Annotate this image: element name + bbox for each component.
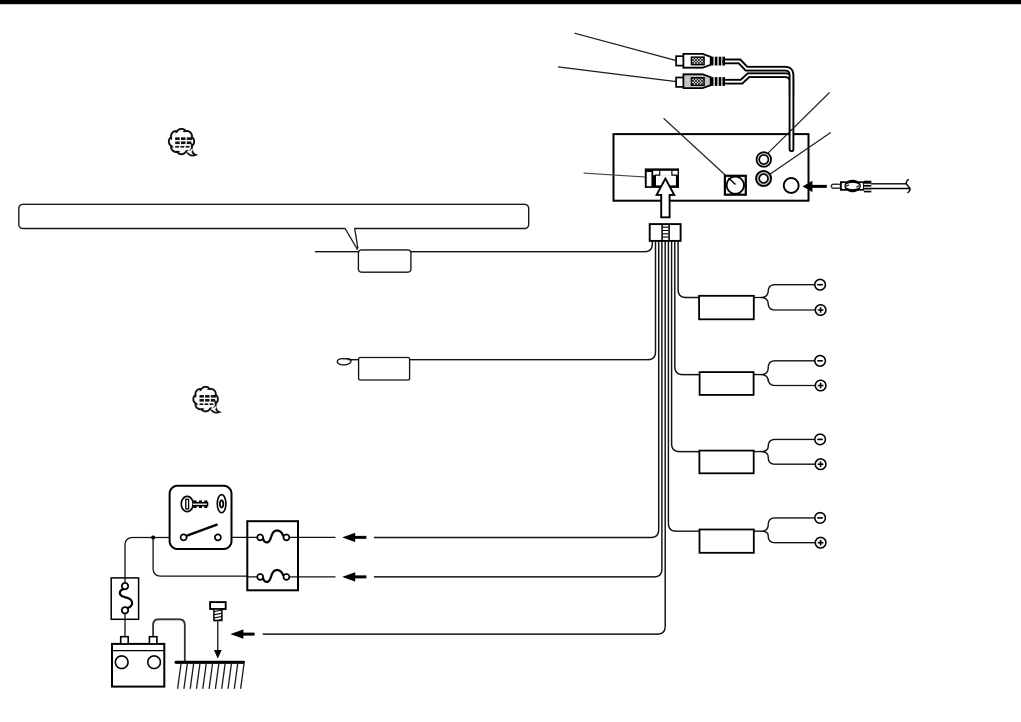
label box 1 [358, 250, 411, 272]
callout tail lines [345, 228, 358, 250]
speaker row 4 plus terminal [815, 537, 826, 548]
fuse holder element [120, 589, 132, 608]
key shaft [193, 502, 209, 507]
fuse box [247, 521, 298, 590]
line-out jack 2 [756, 171, 771, 186]
white up arrow into harness socket [657, 179, 675, 218]
fuse holder [111, 578, 138, 619]
battery cell left [115, 656, 128, 669]
speaker row 1 split wires [754, 285, 815, 298]
black arrow 2 [342, 572, 366, 581]
fuse F2 [263, 570, 283, 582]
wire W6 harness to speaker 4 [668, 241, 700, 531]
callout line to DIN socket [664, 118, 736, 184]
speaker row 1 plus terminal [815, 305, 826, 316]
wire junction branch down to fuse 2 [153, 538, 247, 577]
RCA plug 2 knurl [691, 78, 704, 86]
speaker row 1 label box [699, 296, 754, 320]
wire W3 harness to amp-control label with loop end [348, 241, 656, 360]
ground screw head [210, 602, 226, 609]
speaker row 2 plus terminal [815, 380, 826, 391]
label box 2 [359, 358, 410, 381]
ignition key switch box [170, 486, 232, 549]
RCA plug 2 (gray) tip [676, 78, 683, 87]
wire W9 harness to ground [263, 241, 666, 634]
DIN socket [725, 176, 746, 195]
speaker row 2 split wires [754, 361, 815, 375]
harness socket on panel [645, 168, 679, 188]
wire junction to fuse holder [125, 538, 153, 579]
ground hatching [178, 664, 244, 689]
junction dot [151, 536, 155, 540]
speaker row 4 minus terminal [815, 513, 826, 524]
callout line to gray RCA plug [558, 67, 676, 82]
antenna plug pin [831, 184, 841, 188]
antenna plug body [841, 182, 864, 190]
callout line to line-out jack 2 [766, 133, 831, 178]
callout line to harness socket [584, 173, 649, 177]
battery terminal right [149, 637, 157, 644]
wire battery to ground [153, 619, 185, 661]
wire W7 harness to ignition switch [374, 241, 659, 538]
switch lever [186, 524, 217, 536]
speaker row 3 minus terminal [815, 434, 826, 445]
antenna cable [871, 184, 910, 189]
ground bar [175, 661, 246, 664]
wire W5 harness to speaker 3 [672, 241, 700, 452]
speaker row 3 split wires [754, 439, 815, 451]
antenna plug ribbed block [864, 181, 871, 193]
battery cell right [148, 656, 161, 669]
fuse holder internal wire stubs [124, 578, 126, 619]
black arrow 4 antenna [803, 181, 827, 192]
RCA cable pair: upper cable from white plug, runs down to panel [725, 61, 792, 149]
battery top band [112, 650, 164, 652]
antenna jack [784, 178, 799, 193]
ground screw pointer line [217, 621, 219, 652]
battery [112, 644, 164, 687]
wire W1 harness to antenna-control label [315, 241, 652, 252]
black arrow 3 [230, 629, 254, 638]
RCA plug 1 ribs [711, 57, 725, 66]
callout box large [19, 204, 529, 228]
speaker row 2 minus terminal [815, 356, 826, 367]
antenna cable break squiggle [906, 179, 910, 193]
switch contact left [181, 534, 187, 540]
header bar [0, 0, 1021, 4]
key head [181, 496, 193, 511]
head unit rear panel [614, 134, 809, 201]
fuse box internal wire stubs [247, 537, 298, 577]
callout tail gap [345, 227, 355, 231]
wire loop terminal [337, 359, 352, 365]
black arrow 1 [342, 533, 366, 542]
line-out jack 1 [757, 152, 771, 166]
wire battery-line from junction to switch [153, 537, 181, 539]
fuse F1 [263, 531, 283, 543]
wire W8 harness to fuse 2 [374, 241, 662, 577]
key head slot [186, 499, 189, 509]
antenna plug lens [846, 183, 860, 189]
speaker row 3 label box [699, 451, 753, 474]
RCA plug 2 ribs [711, 77, 725, 86]
harness connector [650, 224, 681, 241]
switch contact right [215, 534, 221, 540]
RCA plug 1 (white) tip [676, 56, 683, 65]
RCA plug 2 body [683, 74, 710, 88]
speaker row 4 label box [700, 530, 754, 553]
callout line to white RCA plug [575, 33, 677, 60]
wire fuse box to arrow 1 [298, 536, 336, 538]
note icon 2 (speech cloud) [193, 387, 219, 413]
antenna plug body bulge [844, 180, 860, 192]
wire fuse box to arrow 2 [298, 576, 336, 578]
keyhole [217, 495, 226, 513]
speaker row 2 label box [700, 372, 754, 395]
battery terminal left [121, 637, 129, 644]
ground screw pointer arrowhead [214, 650, 222, 659]
callout line to line-out jack 1 [767, 92, 830, 154]
RCA cable pair: lower cable from gray plug [725, 75, 792, 95]
note icon 1 (speech cloud) [169, 129, 196, 156]
wire W2 harness to speaker 1 [678, 241, 700, 298]
RCA plug 1 body [683, 54, 710, 68]
RCA plug 1 knurl [691, 57, 704, 65]
wire fuse holder to battery [124, 619, 126, 637]
speaker row 1 minus terminal [815, 279, 826, 290]
speaker row 3 plus terminal [815, 459, 826, 470]
ground screw shaft [214, 609, 222, 621]
speaker row 4 split wires [754, 518, 815, 531]
wire switch to fuse box [221, 536, 247, 538]
wire W4 harness to speaker 2 [675, 241, 700, 375]
